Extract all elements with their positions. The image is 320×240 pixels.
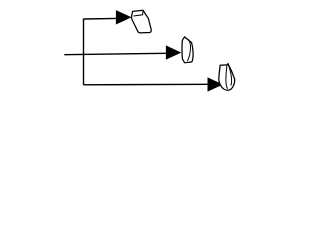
arrowhead to bottom document (208, 78, 223, 91)
wire: left stem and middle branch (64, 53, 166, 54)
curl line of document 2 (187, 39, 190, 61)
wire: bottom branch (84, 83, 209, 86)
document icon 2 (middle, curled page) (182, 37, 193, 63)
curl line b of document 3 (228, 64, 232, 86)
document icon 3 (bottom, curled page) (219, 64, 235, 91)
arrowhead to top document (116, 11, 131, 24)
wire: vertical trunk (83, 19, 85, 85)
arrowhead to middle document (166, 46, 180, 59)
curl line a of document 3 (226, 65, 228, 89)
document icon 1 (top, rotated page with folded corner) (132, 10, 152, 33)
fold line of document 1 (134, 11, 144, 16)
wire: top branch (84, 17, 118, 20)
